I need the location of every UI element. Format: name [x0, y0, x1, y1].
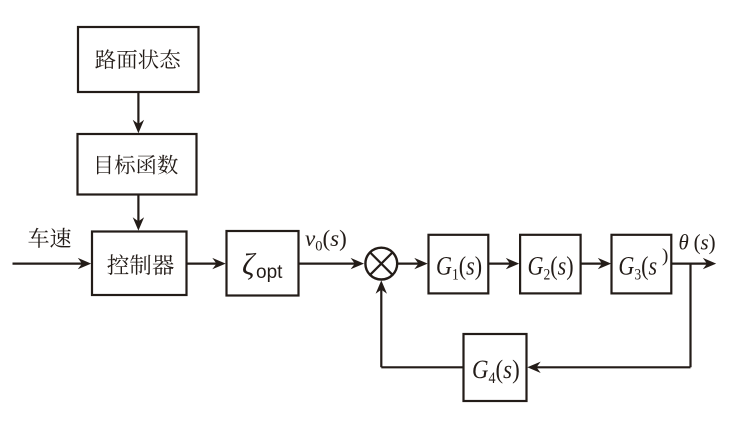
wire feedback: left segment from G4 — [381, 366, 463, 368]
block 目标函数 (objective function) — [78, 134, 197, 195]
svg-text:v0(s): v0(s) — [305, 226, 347, 255]
summing junction (circle with X) — [365, 248, 397, 280]
label G3(s without closing paren — [618, 253, 657, 284]
block G1(s) — [429, 235, 489, 294]
wire feedback: up into summing junction — [376, 280, 387, 367]
wire G3 to output arrow, with feedback tap node — [671, 258, 716, 269]
label 路面状态 — [95, 49, 180, 69]
block 路面状态 (road surface state) — [78, 27, 199, 92]
wire G1 to G2 — [488, 258, 519, 269]
wire 目标函数 to 控制器 — [133, 195, 144, 231]
svg-text:θ(s): θ(s) — [679, 230, 716, 255]
svg-text:opt: opt — [256, 262, 283, 283]
label θ(s) — [679, 230, 716, 255]
svg-text:G1(s): G1(s) — [436, 253, 482, 284]
block G4(s) — [464, 334, 527, 401]
svg-text:G3(s: G3(s — [618, 253, 657, 284]
block G2(s) — [520, 235, 581, 294]
block G3(s) — [612, 235, 672, 294]
block 控制器 (controller) — [92, 232, 187, 296]
label G1(s) — [436, 253, 482, 284]
wire summing junction to G1 — [398, 258, 428, 269]
wire feedback: horizontal segment into G4 — [527, 362, 690, 373]
wire 车速 input into 控制器 — [13, 258, 92, 269]
label 目标函数 — [97, 155, 178, 175]
label 车速 — [28, 228, 70, 248]
label G2(s) — [528, 253, 574, 284]
wire G2 to G3 — [581, 258, 612, 269]
wire 路面状态 to 目标函数 — [133, 92, 144, 133]
svg-text:): ) — [662, 245, 668, 266]
wire feedback: down from output node — [689, 264, 691, 368]
wire ζopt to summing junction, labeled v0(s) — [299, 258, 365, 269]
label 控制器 — [107, 254, 173, 275]
svg-text:G2(s): G2(s) — [528, 253, 574, 284]
wire 控制器 to ζopt — [187, 258, 226, 269]
svg-text:G4(s): G4(s) — [472, 356, 520, 388]
label G4(s) — [472, 356, 520, 388]
block ζopt — [227, 231, 299, 296]
svg-text:ζ: ζ — [242, 247, 257, 282]
